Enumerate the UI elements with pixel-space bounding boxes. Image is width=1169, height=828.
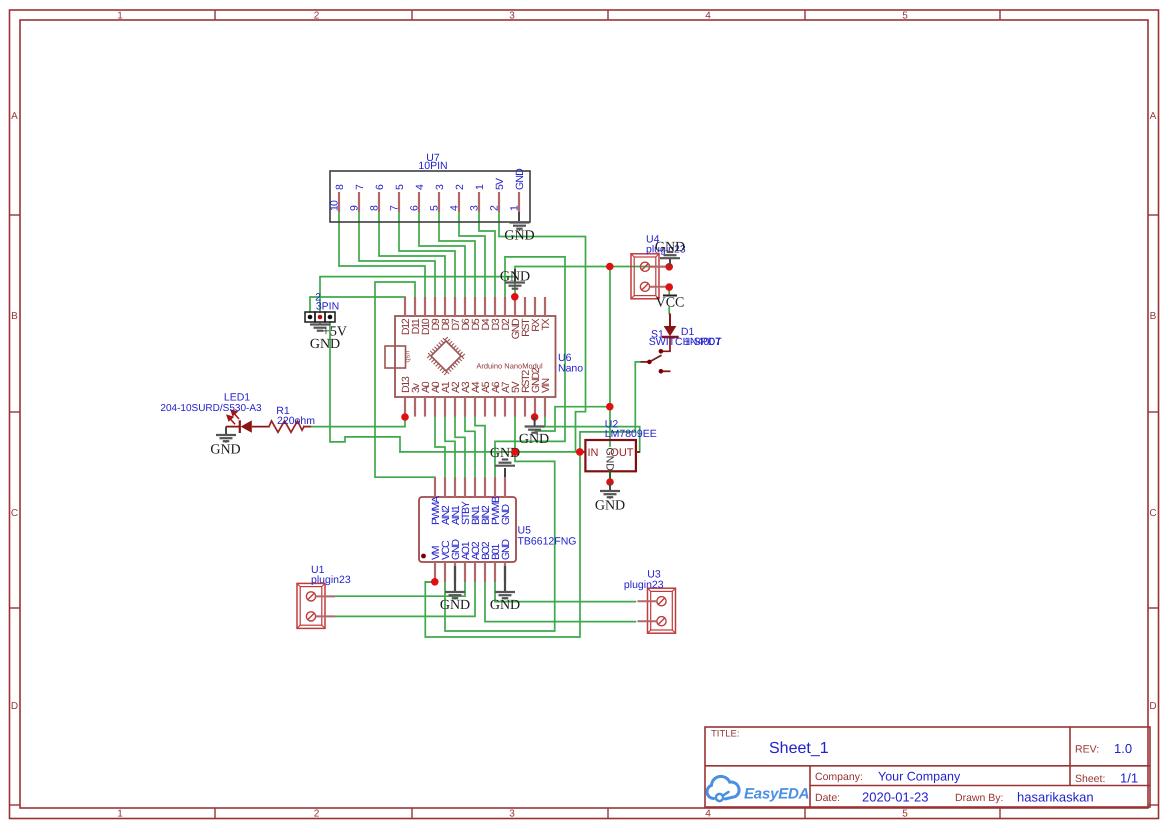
- svg-text:5: 5: [902, 809, 908, 820]
- svg-text:EasyEDA: EasyEDA: [744, 786, 809, 803]
- svg-text:10PIN: 10PIN: [418, 160, 447, 172]
- svg-text:Company:: Company:: [815, 771, 863, 783]
- svg-text:GND: GND: [210, 443, 240, 458]
- svg-text:REV:: REV:: [1075, 744, 1099, 756]
- svg-text:GND: GND: [504, 229, 534, 244]
- svg-text:GND: GND: [595, 499, 625, 514]
- svg-text:A: A: [11, 111, 18, 122]
- svg-text:1: 1: [117, 11, 123, 22]
- svg-text:1/1: 1/1: [1120, 771, 1138, 786]
- svg-text:3PIN: 3PIN: [316, 300, 339, 312]
- svg-text:3: 3: [509, 11, 515, 22]
- svg-text:GND: GND: [604, 448, 616, 472]
- svg-text:C: C: [11, 508, 18, 519]
- svg-text:+5V: +5V: [322, 325, 347, 340]
- svg-text:4: 4: [705, 809, 711, 820]
- svg-text:plugin23: plugin23: [624, 579, 664, 591]
- svg-text:2020-01-23: 2020-01-23: [862, 790, 929, 805]
- svg-text:TITLE:: TITLE:: [711, 729, 740, 740]
- svg-text:GND: GND: [519, 432, 549, 447]
- svg-text:usb: usb: [404, 351, 413, 363]
- svg-text:VCC: VCC: [656, 296, 685, 311]
- svg-text:B: B: [11, 311, 18, 322]
- svg-text:LM7809EE: LM7809EE: [605, 428, 657, 440]
- svg-text:Drawn By:: Drawn By:: [955, 792, 1003, 804]
- svg-text:Sheet:: Sheet:: [1075, 773, 1105, 785]
- svg-text:5: 5: [902, 11, 908, 22]
- svg-text:VIN: VIN: [540, 378, 552, 393]
- svg-text:GND: GND: [500, 539, 512, 560]
- svg-text:Nano: Nano: [558, 363, 583, 375]
- svg-text:2: 2: [314, 809, 320, 820]
- svg-text:10: 10: [329, 200, 341, 211]
- svg-text:GND: GND: [500, 504, 512, 525]
- svg-text:GND: GND: [490, 598, 520, 613]
- svg-text:5V: 5V: [494, 178, 506, 190]
- svg-text:TX: TX: [540, 318, 552, 330]
- svg-text:SWITCH-SPDT: SWITCH-SPDT: [649, 336, 722, 348]
- svg-text:C: C: [1149, 508, 1156, 519]
- svg-text:Your Company: Your Company: [878, 770, 961, 784]
- svg-text:TB6612FNG: TB6612FNG: [518, 536, 577, 548]
- svg-text:204-10SURD/S530-A3: 204-10SURD/S530-A3: [160, 403, 262, 414]
- svg-text:LED1: LED1: [224, 392, 250, 404]
- svg-text:1.0: 1.0: [1114, 741, 1132, 756]
- svg-text:1: 1: [117, 809, 123, 820]
- svg-text:220ohm: 220ohm: [277, 415, 315, 427]
- svg-text:3: 3: [509, 809, 515, 820]
- svg-text:IN: IN: [588, 447, 599, 459]
- svg-text:B: B: [1150, 311, 1157, 322]
- svg-text:D: D: [1149, 701, 1156, 712]
- svg-text:hasarikaskan: hasarikaskan: [1017, 790, 1094, 805]
- svg-text:Date:: Date:: [815, 792, 840, 804]
- svg-text:D: D: [11, 701, 18, 712]
- svg-text:GND: GND: [500, 270, 530, 285]
- svg-text:2: 2: [314, 11, 320, 22]
- svg-text:GND: GND: [440, 598, 470, 613]
- svg-text:plugin23: plugin23: [311, 574, 351, 586]
- svg-text:A: A: [1150, 111, 1157, 122]
- svg-text:GND: GND: [655, 240, 685, 255]
- svg-text:Sheet_1: Sheet_1: [769, 740, 829, 757]
- svg-text:GND: GND: [514, 168, 526, 190]
- svg-text:4: 4: [705, 11, 711, 22]
